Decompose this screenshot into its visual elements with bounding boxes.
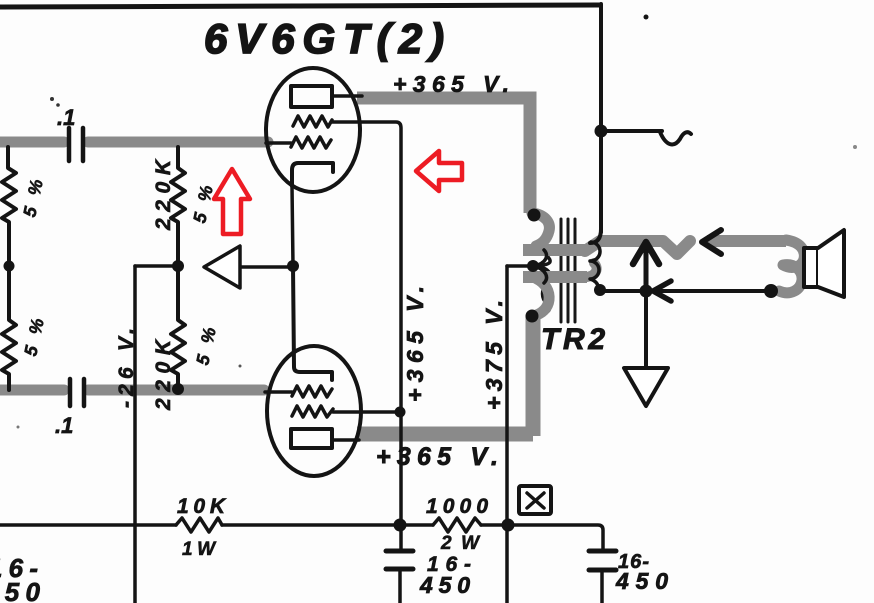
wire below cap [600, 572, 604, 603]
wire grey band across core (lower) [523, 271, 587, 283]
node junction screen bus [395, 407, 406, 418]
wire ground drop [644, 291, 648, 368]
svg-text:.1: .1 [55, 413, 73, 438]
wire plate V1 to grey [332, 94, 362, 98]
node junction left chain [4, 261, 15, 272]
node cathode junction [287, 260, 299, 272]
node TR2 primary top [528, 209, 541, 222]
wire V2 control grid to grey [265, 390, 292, 394]
tube V1 screen grid zigzag [293, 116, 332, 127]
node junction +375 bus / rail [502, 519, 515, 532]
wire secondary bottom to speaker [600, 289, 771, 293]
svg-text:450: 450 [615, 568, 668, 594]
svg-text:450: 450 [419, 572, 470, 598]
speck dot [644, 15, 649, 20]
wire +375 bus vertical [505, 266, 509, 603]
arrow up annotation at TR2 output [644, 246, 649, 291]
capacitor 16-450 (right) plates [589, 549, 616, 554]
capacitor .1 upper plates [69, 128, 83, 161]
wire grey highlighted: left lower grid wire [0, 385, 64, 396]
wire grey curl into TR2 primary top [532, 213, 549, 246]
svg-text:1W: 1W [182, 539, 217, 560]
ground symbol [624, 368, 668, 406]
wire grey curl into TR2 primary bottom [533, 279, 549, 316]
wire grey highlighted: upper plate to TR2 primary top [357, 98, 530, 213]
wire grey curl at secondary lower [587, 263, 597, 277]
tube V1 cathode [292, 163, 333, 186]
wire center tap lead [507, 264, 530, 268]
wire V1 cathode down [292, 186, 293, 266]
tube V2 plate [291, 429, 332, 448]
transformer TR2 primary winding hooks at center tap [534, 250, 547, 283]
resistor 1000 2W [433, 518, 481, 532]
resistor left chain upper (5%) [2, 147, 16, 266]
wire grey highlighted signal path: left upper grid wire [0, 142, 268, 390]
wire V2 screen to screen bus [333, 410, 400, 414]
node TR2 secondary bottom [594, 284, 606, 296]
tube V1 6V6GT (upper) envelope [266, 68, 360, 192]
node junction screen bus / rail [394, 519, 407, 532]
capacitor .1 lower plates [70, 379, 84, 406]
switch stub (open lead with hook) [601, 129, 662, 133]
wire TR2 secondary top hook [590, 229, 601, 243]
wire below cap [398, 571, 402, 603]
wire plate V2 to grey [332, 438, 359, 442]
wire grey band across core (upper) [523, 244, 587, 256]
wire V1 control grid to grey [266, 141, 291, 145]
wire grey highlighted: lower plate to TR2 primary bottom [357, 315, 533, 436]
box X marker [519, 486, 551, 514]
svg-text:TR2: TR2 [541, 323, 605, 356]
wire triangle tap to cathode junction [240, 265, 290, 269]
resistor left chain lower (5%) [2, 266, 16, 390]
wire grey secondary out with hop notch [585, 241, 690, 254]
capacitor 16-450 (left) plates [386, 549, 413, 554]
node junction 220K [172, 260, 184, 272]
wire bottom supply rail [0, 525, 603, 551]
arrow chevron on bottom wire [653, 281, 671, 301]
svg-text:2W: 2W [440, 533, 481, 554]
svg-text:10K: 10K [177, 495, 227, 518]
wire -26V vertical [133, 266, 137, 603]
resistor R 220K lower [171, 266, 185, 388]
node TR2 center tap [527, 260, 539, 272]
svg-text:-26 V.: -26 V. [115, 328, 138, 408]
wire -26V branch [135, 264, 175, 268]
wire grey highlighted: to speaker [707, 235, 786, 247]
arrow red left annotation [416, 151, 462, 191]
arrow hollow triangle (pointer) [204, 246, 240, 288]
tube V1 control grid zigzag [291, 137, 331, 148]
svg-text:6V6GT(2): 6V6GT(2) [204, 15, 444, 62]
node TR2 primary bottom [526, 310, 539, 323]
tube V2 6V6GT (lower) envelope [267, 346, 361, 476]
transformer TR2 core laminations (under highlight) [561, 219, 575, 322]
tube V2 screen grid zigzag [292, 406, 333, 417]
node junction 220K on grey [172, 383, 184, 395]
node junction on bus [595, 125, 608, 138]
arrow chevron on grey speaker wire [702, 230, 721, 254]
tube V1 plate [291, 86, 332, 107]
tube V2 cathode [293, 266, 332, 380]
wire vertical bus from border to TR2 secondary [599, 4, 603, 232]
transformer TR2 secondary winding [590, 242, 600, 289]
speaker LS1 driver [804, 248, 818, 287]
resistor 10K 1W [176, 518, 222, 532]
tube V2 control grid zigzag [292, 386, 332, 397]
arrow red up annotation [214, 169, 250, 234]
transformer TR2 primary winding (under highlight) [532, 215, 550, 316]
border top line [0, 5, 599, 7]
node junction ground tap [640, 285, 653, 298]
speck marks near .1 label [50, 97, 54, 101]
wire V1 screen to screen bus [332, 122, 401, 551]
node speaker terminal [764, 284, 778, 298]
speaker LS1 horn [818, 230, 844, 297]
speck dot [853, 145, 857, 149]
wire grey curl at speaker ("3" shape) [779, 240, 804, 293]
svg-text:.1: .1 [57, 105, 75, 130]
resistor R 220K upper [171, 147, 185, 266]
